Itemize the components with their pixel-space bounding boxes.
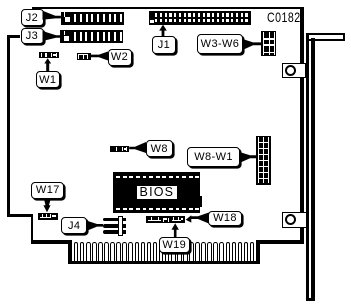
bracket tab with screw hole (bottom) <box>282 212 307 229</box>
bracket left wall <box>306 33 310 301</box>
leader: W17 label to jumper W17 <box>43 198 51 212</box>
connector J4 (right-angle pins) <box>103 218 126 222</box>
bracket tab with screw hole (top) <box>282 63 306 78</box>
wire: edge connector left wall <box>68 240 72 264</box>
leader: W19 label to jumper <box>172 223 179 238</box>
wire: bottom edge left of connector <box>31 240 72 244</box>
jumper W8 <box>110 146 129 152</box>
wire: board top edge <box>32 7 304 9</box>
edge connector gold fingers <box>74 242 79 261</box>
label W19 <box>159 237 191 252</box>
wire: bottom edge right of connector <box>256 240 304 244</box>
BIOS label <box>137 186 177 199</box>
bracket right wall <box>311 38 315 301</box>
label J2 <box>21 9 44 27</box>
leader: W2 label to jumper W2 <box>91 52 109 61</box>
wire: board right edge <box>300 7 304 244</box>
leader: J2 label to connector J2 <box>43 11 61 20</box>
jumper W1 <box>39 52 59 58</box>
label W18 <box>208 211 242 226</box>
wire: left edge to J3 label <box>7 35 20 38</box>
wire: bottom-left step horizontal <box>7 214 33 218</box>
connector W8-W1 (jumper block) <box>256 136 270 185</box>
leader: W1 label to jumper W1 <box>44 58 51 71</box>
connector W3-W6 (jumper block) <box>261 31 275 56</box>
bracket bottom cap <box>306 298 315 301</box>
label W8-W1 <box>187 147 240 168</box>
jumper W2 <box>77 53 91 60</box>
label J1 <box>152 36 176 54</box>
leader: J4 label to connector J4 <box>86 221 103 232</box>
label W1 <box>36 71 61 88</box>
IC U? BIOS ROM chip <box>113 172 200 213</box>
part number C0182 <box>267 10 301 25</box>
label J3 <box>21 28 44 44</box>
label J4 <box>61 217 87 234</box>
label W8 <box>146 140 173 157</box>
connector J2 (header block) <box>61 12 124 25</box>
jumper W18/W19 block <box>146 216 185 224</box>
label W17 <box>31 182 64 199</box>
wire: edge connector right wall <box>256 240 260 264</box>
leader: W8-W1 label to connector <box>239 152 256 163</box>
wire: edge connector bottom edge <box>68 261 260 264</box>
leader: J1 label to connector J1 <box>159 25 167 37</box>
jumper W17 <box>38 213 58 220</box>
leader: W18 label to jumper <box>186 213 209 224</box>
connector J1 (dual-row pin header) <box>149 11 251 25</box>
label W3-W6 <box>197 34 243 53</box>
connector J3 (header block) <box>60 30 123 43</box>
wire: bottom-left step vertical <box>31 214 34 244</box>
label W2 <box>108 49 132 66</box>
wire: board left edge <box>7 35 10 217</box>
leader: J3 label to connector J3 <box>43 31 61 41</box>
bracket top flange <box>306 33 346 41</box>
leader: W8 label to jumper W8 <box>129 142 146 153</box>
